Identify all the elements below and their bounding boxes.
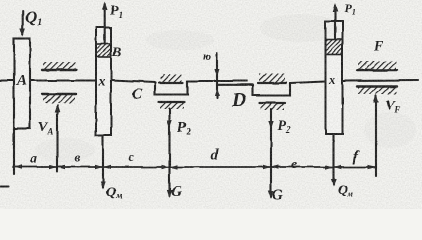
support column B hatched block <box>96 44 111 57</box>
bearing pad top at A <box>43 62 75 70</box>
shaft axis segment left of cylinder A <box>0 79 14 81</box>
weight arrow Qm right <box>332 134 334 185</box>
bearing pad top at C <box>160 74 182 82</box>
shaft axis segment E to F <box>343 79 419 82</box>
support column B outer body <box>96 28 111 136</box>
stray mark bottom left <box>0 185 8 187</box>
support column E outer body <box>326 21 343 134</box>
force arrow P1 right <box>334 6 336 40</box>
shaft axis segment B to C <box>111 81 155 83</box>
lower axis line of right shaft <box>217 84 253 86</box>
journal step C <box>155 81 188 95</box>
bearing pad top at F <box>358 61 396 71</box>
shaft axis segment A to B <box>30 79 96 81</box>
bearing pad bottom at F <box>357 85 397 87</box>
misalignment marker arrows <box>216 53 218 98</box>
dimension baseline <box>13 166 376 168</box>
force arrow P1 left <box>104 4 106 44</box>
force line P2/G left <box>168 109 170 197</box>
bearing pad bottom at A <box>42 93 76 95</box>
support column E hatched block <box>326 40 343 55</box>
reaction arrow VA <box>56 106 58 172</box>
bearing pad top at D <box>259 74 285 83</box>
extension line below A <box>13 129 15 175</box>
dimension arrowheads at ticks <box>14 165 22 169</box>
force line P2/G right <box>270 109 272 197</box>
shaft axis segment D to E <box>290 82 326 84</box>
bearing pad bottom at D <box>260 101 285 103</box>
bearing pad bottom at C <box>159 101 184 103</box>
load arrow Q1 <box>22 11 24 35</box>
cylinder A body <box>14 39 30 129</box>
journal step D <box>253 83 290 95</box>
weight arrow Qm left <box>102 135 104 187</box>
upper axis line of left shaft <box>188 80 248 82</box>
reaction arrow VF <box>375 96 377 176</box>
